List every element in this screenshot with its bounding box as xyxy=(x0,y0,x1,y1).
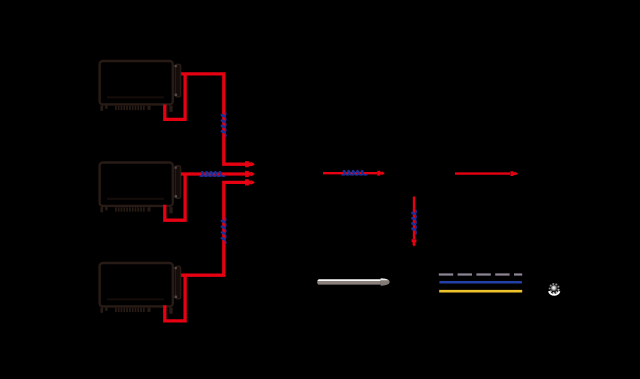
gear icon xyxy=(549,283,560,295)
projector PJ2 lens barrel xyxy=(175,166,181,198)
projector PJ1 feet xyxy=(100,106,172,112)
projector PJ3 lens barrel xyxy=(175,266,181,298)
ferrite coil on hub-to-converter cable xyxy=(341,171,367,175)
projector PJ2 front vent line xyxy=(107,198,164,200)
projector PJ1 lens barrel xyxy=(175,64,181,96)
wire: projector PJ1 serial cable (down, right, up, right, down to bus arrow 1) xyxy=(165,74,246,164)
wire: converter drop cable (thin, with coil), pointing down xyxy=(413,197,415,240)
wire: projector PJ3 serial cable (down, right, up, right, up to bus arrow 3) xyxy=(165,182,246,321)
projector PJ1 front vent line xyxy=(107,96,164,98)
arrowhead: drop cable, pointing down xyxy=(412,239,417,247)
wire: hub to converter cable (thin, with coil), pointing right xyxy=(323,172,377,174)
ferrite coil on PJ2 cable xyxy=(200,172,226,176)
arrowhead: PJ3 cable into hub, pointing right xyxy=(245,179,255,185)
arrowhead: converter-to-controller, pointing right xyxy=(510,171,518,176)
arrowhead: PJ1 cable into hub, pointing right xyxy=(245,161,255,167)
ferrite coil on drop cable xyxy=(412,210,416,235)
arrowhead: PJ2 cable into hub, pointing right xyxy=(245,171,255,177)
legend: remote signal gray arrow xyxy=(317,278,390,285)
projector PJ1 body xyxy=(100,61,173,104)
legend: blue line xyxy=(439,281,522,284)
wire: converter to controller cable (thin), pointing right xyxy=(455,172,510,174)
wire: projector PJ2 serial cable (down, right, up to lens level, right to bus arrow 2) xyxy=(165,174,246,220)
projector PJ3 front vent line xyxy=(107,298,164,300)
ferrite coil on PJ3 cable xyxy=(221,217,225,244)
projector PJ2 body xyxy=(100,163,173,206)
projector PJ3 feet xyxy=(100,308,172,314)
ferrite coil on PJ1 cable xyxy=(221,112,225,137)
legend: yellow line xyxy=(439,290,522,293)
projector PJ2 feet xyxy=(100,207,172,213)
projector PJ3 body xyxy=(100,263,173,306)
arrowhead: hub-to-converter, pointing right xyxy=(377,171,385,176)
legend: dashed gray line xyxy=(439,273,522,275)
